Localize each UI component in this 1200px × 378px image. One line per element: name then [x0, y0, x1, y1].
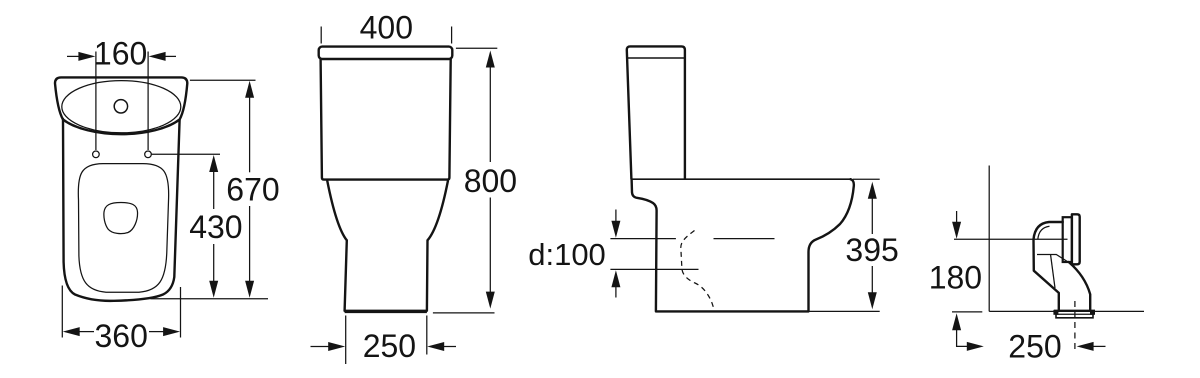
view 2: cistern lid [319, 47, 453, 59]
dimension 800 extension lines [433, 48, 497, 313]
dimension 180 arrows [952, 211, 969, 346]
dimension 800 line and arrows [486, 51, 495, 309]
view 4: outlet pipe body [1034, 222, 1091, 310]
view 1: WC front view outline (tank) [55, 77, 187, 134]
dimension 160 extension lines [96, 52, 148, 151]
dimension 395 line and arrows [868, 182, 877, 309]
dimension d:100 arrows [611, 210, 620, 298]
dimension d:100 reference lines [610, 239, 774, 270]
view 3: rear outline [809, 179, 854, 311]
dimension 160 arrows [67, 52, 176, 61]
svg-text:250: 250 [363, 328, 416, 364]
view 4: outlet collar [1053, 310, 1095, 318]
view 1: right fixing hole [145, 151, 152, 158]
view 3: seat top line [631, 178, 851, 180]
dimension 395 extension lines [809, 179, 880, 311]
svg-text:d:100: d:100 [528, 237, 606, 272]
dimension 430 extension line top [152, 153, 221, 155]
dimension 670 line and arrows [245, 81, 254, 298]
view 3: front step outline [632, 179, 657, 311]
view 3: base line [656, 310, 809, 312]
view 1: flush button [114, 100, 127, 113]
dimension 430 line and arrows [209, 155, 218, 298]
view 4: wall reference line [988, 166, 990, 312]
dimension 250 (view 4) arrows [967, 342, 1106, 351]
view 3: dashed trap line [681, 231, 715, 311]
view 1: left fixing hole [93, 151, 100, 158]
view 1 bottom reference line [151, 298, 269, 300]
svg-text:180: 180 [929, 259, 982, 295]
view 4: pipe flange [1063, 217, 1072, 262]
svg-text:250: 250 [1008, 329, 1061, 365]
dimension 400 ticks [321, 27, 451, 44]
dimension 360 arrows [63, 327, 180, 336]
view 4: flange outer cap [1072, 214, 1080, 264]
dimension 180 reference lines [952, 239, 1068, 312]
svg-text:395: 395 [845, 232, 898, 268]
svg-text:800: 800 [464, 163, 517, 199]
view 1: seat outline [78, 164, 168, 293]
svg-text:670: 670 [226, 172, 279, 208]
view 4: floor reference line [989, 310, 1144, 312]
dimension 250 (view 2) extension lines [346, 316, 427, 365]
svg-text:430: 430 [189, 209, 242, 245]
svg-text:160: 160 [94, 35, 147, 71]
view 2: bowl and pedestal outline [327, 181, 448, 311]
view 3: cistern lid line [627, 57, 685, 59]
view 3: cistern side outline [627, 46, 685, 179]
svg-text:400: 400 [360, 9, 413, 45]
view 1: WC body outline [63, 119, 180, 301]
dimension 360 extension lines [62, 286, 180, 338]
view 4: pipe inner detail lines [1037, 226, 1070, 288]
view 1: inner bowl outline [104, 203, 138, 234]
dimension 250 (view 2) arrows [311, 342, 457, 351]
view 2: cistern body [321, 59, 451, 180]
view 4: outlet dashed centerline [1074, 301, 1076, 351]
view 1: cistern lid ellipse [62, 81, 181, 133]
view 2: pedestal base line [345, 311, 427, 313]
dimension 670 extension line top [190, 79, 256, 81]
svg-text:360: 360 [95, 318, 148, 354]
